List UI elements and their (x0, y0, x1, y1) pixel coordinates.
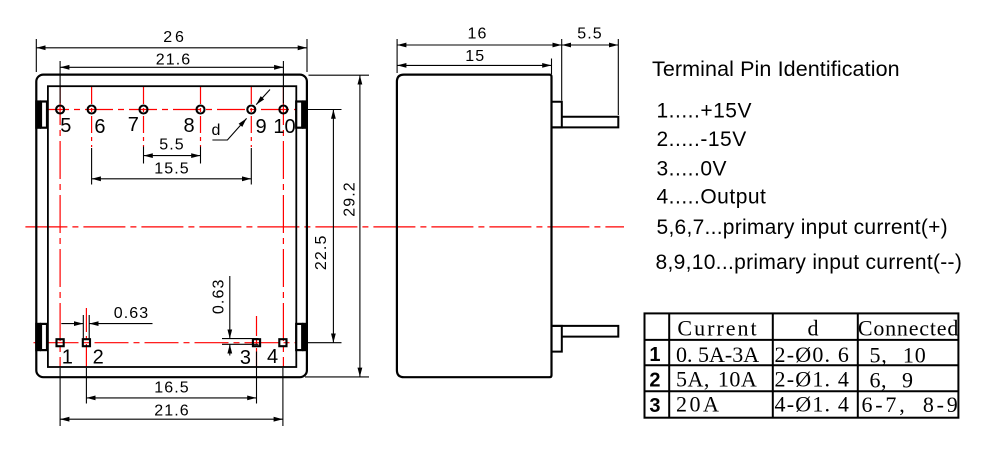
notch bottom-right (302, 323, 308, 351)
svg-text:8: 8 (183, 115, 194, 137)
vertical centerline pin 2 (85, 308, 87, 367)
vertical centerline pin 7 (143, 87, 145, 147)
svg-text:d: d (212, 122, 222, 139)
svg-text:0.63: 0.63 (210, 279, 227, 315)
vertical centerline pins 10/4 (282, 87, 284, 367)
ext 16/15 left (396, 39, 398, 73)
svg-text:0.63: 0.63 (114, 305, 150, 322)
svg-text:3: 3 (240, 347, 251, 369)
svg-text:1: 1 (649, 344, 660, 366)
ext pin8 down (200, 147, 202, 164)
dim 21.6 bottom (60, 418, 283, 420)
dim 29.2 vertical (359, 75, 361, 377)
bottom pin bar (552, 326, 619, 337)
dim 26 (36, 47, 307, 49)
svg-text:26: 26 (163, 29, 186, 46)
ext pin2 down (85, 368, 87, 404)
bottom pin row centerline (red) (34, 342, 307, 344)
svg-text:4.....Output: 4.....Output (657, 186, 767, 209)
svg-text:Current: Current (677, 316, 758, 341)
extension lines (thin black) (36, 39, 369, 426)
ext 26 right (306, 39, 308, 72)
leader d lower (212, 118, 246, 140)
pin 5 hole (56, 106, 64, 114)
svg-text:10: 10 (273, 116, 295, 138)
svg-text:6, 9: 6, 9 (870, 368, 914, 393)
ext 29.2 top horizontal (309, 74, 370, 76)
pin 3 pad (253, 339, 260, 346)
svg-text:2.....-15V: 2.....-15V (657, 128, 747, 151)
svg-text:2-Ø0. 6: 2-Ø0. 6 (775, 342, 851, 367)
ext pin7 down (143, 147, 145, 164)
svg-text:22.5: 22.5 (313, 235, 330, 271)
ext 21.6 right (282, 61, 284, 104)
svg-text:4-Ø1. 4: 4-Ø1. 4 (775, 392, 851, 417)
svg-text:16: 16 (468, 26, 488, 43)
dim 15 (397, 64, 551, 66)
ext pin2 width right (88, 315, 90, 339)
svg-text:5.5: 5.5 (159, 137, 185, 154)
pin 1 pad (57, 339, 64, 346)
svg-text:3: 3 (649, 395, 660, 417)
pin 2 pad (83, 339, 90, 346)
svg-text:5A, 10A: 5A, 10A (676, 367, 757, 392)
ext pin4 down (282, 368, 284, 426)
pin 6 hole (88, 106, 96, 114)
body inner rect (48, 86, 296, 367)
ext pin1 down (59, 368, 61, 426)
ext 29.2 bottom horizontal (305, 376, 369, 378)
svg-text:5, 10: 5, 10 (870, 343, 927, 368)
dim 21.6 top (60, 66, 283, 68)
leader d upper (256, 90, 270, 105)
dim 0.63 horizontal left arrow (61, 323, 83, 325)
dimension lines with arrows (36, 48, 360, 419)
ext 5.5 right (617, 39, 619, 115)
svg-text:29.2: 29.2 (341, 181, 358, 217)
dim 16.5 (86, 397, 256, 399)
notch top-right (302, 100, 308, 128)
svg-text:21.6: 21.6 (156, 52, 192, 69)
dim 22.5 vertical (332, 110, 334, 343)
pin 9 hole (247, 106, 255, 114)
svg-text:16.5: 16.5 (154, 380, 190, 397)
svg-text:0. 5A-3A: 0. 5A-3A (676, 342, 759, 367)
top pin row centerline (red) (41, 109, 306, 111)
svg-text:15: 15 (465, 48, 485, 65)
dim 0.63 vertical lower arrow (229, 344, 231, 355)
svg-text:21.6: 21.6 (154, 403, 190, 420)
body outline (outer, rounded) (36, 75, 307, 378)
vertical centerline pin 3 (256, 316, 258, 367)
ext pin2 width left (82, 315, 84, 339)
pin 7 hole (140, 106, 148, 114)
ext 0.63v lower horizontal (222, 343, 259, 345)
ext lines side (397, 39, 618, 115)
dim 15.5 (92, 178, 252, 180)
svg-text:7: 7 (128, 114, 139, 136)
table grid (645, 313, 959, 417)
svg-text:5.5: 5.5 (577, 26, 603, 43)
svg-text:2: 2 (93, 347, 104, 369)
vertical centerline pins 5/1 (59, 87, 61, 367)
svg-text:1: 1 (62, 347, 73, 369)
svg-text:5: 5 (60, 115, 71, 137)
svg-text:d: d (808, 316, 819, 341)
svg-text:Connected: Connected (858, 316, 959, 341)
vertical centerline pin 9 (250, 87, 252, 147)
pin hole fills (white under red lines) (55, 104, 289, 347)
ext pin9 down (250, 148, 252, 185)
svg-text:Terminal Pin Identification: Terminal Pin Identification (652, 57, 900, 81)
ext 21.6 left (59, 61, 61, 104)
pin 8 hole (197, 106, 205, 114)
svg-text:6: 6 (94, 116, 105, 138)
top pin bar (552, 117, 619, 128)
svg-text:2: 2 (649, 370, 660, 392)
pin 10 hole (279, 106, 287, 114)
dim 0.63 vertical upper arrow (229, 276, 231, 339)
ext 0.63v upper horizontal (222, 338, 259, 340)
ext pin3 down (256, 352, 258, 404)
ext pin6 down (91, 148, 93, 185)
dim 16 (397, 44, 562, 46)
svg-text:5,6,7...primary input current(: 5,6,7...primary input current(+) (657, 216, 948, 239)
svg-text:2-Ø1. 4: 2-Ø1. 4 (775, 367, 851, 392)
notch bottom-left (35, 323, 41, 351)
ext 22.5 top horizontal (305, 109, 342, 111)
svg-text:9: 9 (255, 116, 266, 138)
notch top-left (35, 100, 41, 128)
ext 22.5 bottom horizontal (307, 342, 342, 344)
pin 4 pad (279, 339, 286, 346)
svg-text:4: 4 (267, 346, 278, 368)
vertical centerline pin 6 (91, 87, 93, 147)
top pin step (552, 102, 562, 128)
svg-text:8,9,10...primary input current: 8,9,10...primary input current(--) (656, 251, 963, 274)
dim 0.63 horizontal right arrow (89, 323, 152, 325)
bottom pin step (552, 326, 562, 352)
ext 15 right (551, 59, 553, 75)
svg-text:3.....0V: 3.....0V (657, 157, 728, 180)
vertical centerline pin 8 (200, 87, 202, 147)
ext 26 left (35, 39, 37, 72)
dim 5.5 side (562, 44, 619, 46)
centerline horizontal (red, long) (25, 226, 624, 228)
dim 5.5 top (144, 155, 201, 157)
ext 16/5.5 middle (561, 39, 563, 101)
svg-text:6-7, 8-9: 6-7, 8-9 (862, 392, 961, 417)
svg-text:15.5: 15.5 (154, 161, 190, 178)
svg-text:20A: 20A (676, 392, 721, 417)
svg-text:1.....+15V: 1.....+15V (657, 100, 752, 123)
side body outline (397, 75, 552, 378)
